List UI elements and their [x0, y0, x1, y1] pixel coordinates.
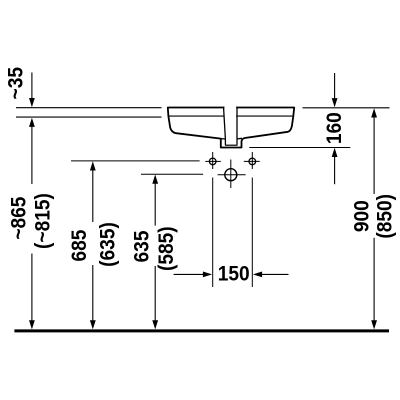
svg-text:~865: ~865: [8, 197, 31, 240]
svg-text:900: 900: [351, 200, 374, 232]
svg-text:(~815): (~815): [32, 193, 55, 249]
svg-text:160: 160: [323, 112, 346, 144]
svg-text:685: 685: [68, 230, 91, 262]
svg-text:~35: ~35: [4, 67, 27, 99]
svg-text:(850): (850): [374, 194, 397, 239]
svg-text:(585): (585): [155, 226, 178, 271]
svg-text:635: 635: [131, 231, 154, 263]
svg-text:150: 150: [218, 263, 250, 286]
svg-text:(635): (635): [97, 222, 120, 267]
